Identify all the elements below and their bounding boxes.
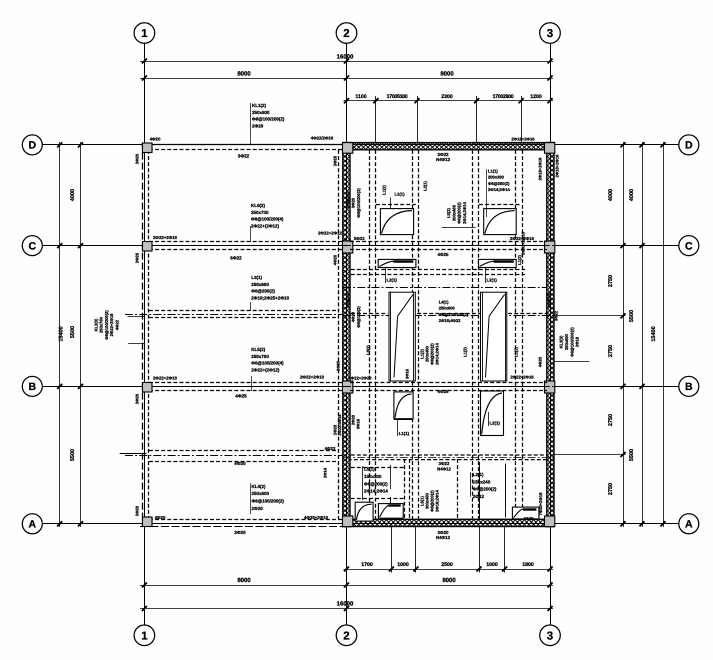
svg-text:8000: 8000 — [440, 70, 454, 77]
svg-text:8000: 8000 — [237, 577, 251, 584]
svg-text:2Φ18;2Φ25+2Φ18: 2Φ18;2Φ25+2Φ18 — [251, 295, 289, 300]
svg-text:180x300: 180x300 — [364, 474, 382, 479]
svg-text:L1(1): L1(1) — [399, 431, 410, 436]
svg-text:L1(1): L1(1) — [488, 169, 498, 174]
svg-text:3Φ20: 3Φ20 — [351, 197, 356, 208]
svg-text:8000: 8000 — [237, 70, 251, 77]
svg-text:2Φ22:3Φ16: 2Φ22:3Φ16 — [337, 414, 342, 436]
svg-text:2Φ22+(2Φ12): 2Φ22+(2Φ12) — [251, 223, 280, 228]
svg-text:Φ6@200(2): Φ6@200(2) — [473, 487, 497, 492]
svg-text:D: D — [685, 140, 693, 152]
svg-text:4Φ20: 4Φ20 — [155, 515, 166, 520]
svg-text:4Φ25: 4Φ25 — [235, 394, 247, 399]
svg-text:4Φ20: 4Φ20 — [234, 461, 246, 466]
svg-text:Φ8@100/200(2): Φ8@100/200(2) — [356, 188, 361, 218]
svg-text:250x600: 250x600 — [251, 282, 269, 287]
svg-text:2Φ14;2Φ14: 2Φ14;2Φ14 — [435, 342, 440, 364]
svg-text:2: 2 — [343, 28, 349, 40]
svg-text:2Φ22+2Φ18: 2Φ22+2Φ18 — [153, 376, 178, 381]
svg-text:KL4(2): KL4(2) — [252, 484, 267, 489]
svg-text:2750: 2750 — [608, 345, 614, 357]
svg-text:1000: 1000 — [486, 562, 498, 568]
svg-text:N4Φ12: N4Φ12 — [437, 466, 451, 471]
svg-text:4Φ20: 4Φ20 — [351, 311, 356, 322]
svg-text:3Φ16: 3Φ16 — [405, 368, 410, 379]
svg-text:L1(2): L1(2) — [513, 346, 518, 356]
svg-text:4Φ22/2Φ16: 4Φ22/2Φ16 — [311, 136, 334, 141]
svg-text:2Φ22+(2Φ12): 2Φ22+(2Φ12) — [251, 367, 280, 372]
svg-text:2: 2 — [343, 631, 349, 643]
svg-text:L2(1): L2(1) — [473, 472, 484, 477]
svg-text:3Φ20: 3Φ20 — [135, 505, 140, 516]
svg-text:2Φ14;2Φ14: 2Φ14;2Φ14 — [488, 187, 510, 192]
svg-text:8000: 8000 — [442, 577, 456, 584]
svg-text:KL1(2): KL1(2) — [252, 103, 267, 108]
svg-text:C: C — [685, 240, 693, 252]
svg-text:3: 3 — [547, 28, 553, 40]
svg-text:N4Φ12: N4Φ12 — [436, 157, 451, 162]
svg-text:15400: 15400 — [651, 326, 657, 341]
svg-text:2Φ14;2Φ14: 2Φ14;2Φ14 — [462, 201, 467, 223]
svg-text:L4(1): L4(1) — [439, 300, 449, 305]
svg-text:N4Φ12: N4Φ12 — [436, 535, 451, 540]
svg-text:2Φ18+2Φ16: 2Φ18+2Φ16 — [555, 154, 560, 177]
svg-text:4Φ20: 4Φ20 — [523, 516, 534, 521]
svg-text:4Φ22+2Φ20: 4Φ22+2Φ20 — [348, 376, 372, 381]
svg-text:A: A — [29, 519, 37, 531]
svg-text:B: B — [29, 381, 37, 393]
svg-text:Φ8@100/200(4): Φ8@100/200(4) — [251, 361, 284, 366]
svg-text:16000: 16000 — [337, 601, 354, 608]
svg-text:1800: 1800 — [522, 562, 534, 568]
svg-text:Φ6@200(2): Φ6@200(2) — [488, 181, 510, 186]
svg-text:2Φ18: 2Φ18 — [575, 336, 580, 347]
svg-text:2Φ16;2Φ14: 2Φ16;2Φ14 — [435, 489, 440, 511]
svg-text:L5(2): L5(2) — [446, 207, 451, 217]
svg-text:4Φ22: 4Φ22 — [325, 446, 336, 451]
svg-text:Φ8@100(2): Φ8@100(2) — [356, 306, 361, 328]
svg-text:4000: 4000 — [608, 189, 614, 201]
svg-text:KL3(3): KL3(3) — [559, 335, 564, 348]
svg-text:2Φ14;2Φ14: 2Φ14;2Φ14 — [364, 489, 388, 494]
svg-text:L1(2): L1(2) — [463, 346, 468, 356]
svg-text:L3(1): L3(1) — [251, 275, 262, 280]
svg-text:250x600: 250x600 — [252, 491, 270, 496]
svg-text:L1(2): L1(2) — [517, 254, 522, 264]
svg-text:4000: 4000 — [70, 189, 76, 201]
svg-text:2Φ20: 2Φ20 — [252, 506, 264, 511]
svg-text:3Φ22: 3Φ22 — [439, 461, 450, 466]
svg-text:5500: 5500 — [70, 449, 76, 461]
svg-text:4Φ22: 4Φ22 — [114, 319, 119, 330]
svg-text:4Φ20: 4Φ20 — [150, 137, 161, 142]
svg-text:3Φ20: 3Φ20 — [135, 393, 140, 404]
svg-text:3Φ22: 3Φ22 — [554, 310, 559, 321]
svg-text:Φ8@100/200(4): Φ8@100/200(4) — [251, 217, 284, 222]
svg-text:250x600: 250x600 — [439, 306, 456, 311]
svg-text:1: 1 — [141, 28, 148, 40]
svg-text:L2(1): L2(1) — [490, 421, 501, 426]
svg-text:7Φ20+2Φ18: 7Φ20+2Φ18 — [538, 492, 543, 515]
svg-text:2Φ18;4Φ22: 2Φ18;4Φ22 — [439, 318, 461, 323]
svg-text:Φ8@200: Φ8@200 — [345, 192, 350, 208]
svg-text:Φ8@100/200(2): Φ8@100/200(2) — [252, 117, 285, 122]
svg-text:L1(1): L1(1) — [395, 192, 406, 197]
svg-text:2Φ22+2Φ12: 2Φ22+2Φ12 — [318, 231, 343, 236]
svg-text:2Φ14: 2Φ14 — [323, 467, 328, 478]
svg-text:4Φ20+2Φ18: 4Φ20+2Φ18 — [304, 515, 329, 520]
svg-text:B: B — [685, 381, 693, 393]
svg-text:3Φ20: 3Φ20 — [234, 530, 246, 535]
svg-text:3: 3 — [547, 631, 553, 643]
svg-text:2Φ18+2Φ16: 2Φ18+2Φ16 — [511, 136, 535, 141]
svg-text:Φ8@100/200(2): Φ8@100/200(2) — [439, 312, 469, 317]
svg-text:2Φ12: 2Φ12 — [473, 494, 485, 499]
svg-text:17002900: 17002900 — [493, 94, 514, 100]
svg-text:3Φ20: 3Φ20 — [135, 252, 140, 263]
svg-text:3Φ16: 3Φ16 — [356, 418, 361, 429]
svg-text:5Φ22: 5Φ22 — [354, 236, 365, 241]
svg-text:250x700: 250x700 — [251, 354, 269, 359]
svg-text:1000: 1000 — [397, 562, 409, 568]
svg-text:L5(1): L5(1) — [364, 467, 375, 472]
svg-text:3Φ20: 3Φ20 — [438, 530, 449, 535]
svg-text:3Φ22: 3Φ22 — [438, 152, 449, 157]
svg-text:250x600: 250x600 — [252, 110, 270, 115]
svg-text:Φ6@200(2): Φ6@200(2) — [457, 202, 462, 224]
svg-text:2Φ20: 2Φ20 — [252, 123, 264, 128]
svg-text:6Φ22: 6Φ22 — [230, 256, 242, 261]
svg-text:2Φ22+2Φ18: 2Φ22+2Φ18 — [153, 235, 178, 240]
svg-text:2Φ20: 2Φ20 — [336, 360, 341, 371]
svg-text:2Φ02+2Φ16: 2Φ02+2Φ16 — [521, 231, 526, 254]
svg-text:4000: 4000 — [629, 189, 635, 201]
svg-text:2Φ22+2Φ18: 2Φ22+2Φ18 — [510, 375, 534, 380]
svg-text:4Φ20: 4Φ20 — [332, 254, 337, 265]
svg-text:Φ8@200(2): Φ8@200(2) — [251, 289, 275, 294]
svg-text:D: D — [29, 140, 37, 152]
svg-text:KL5(2): KL5(2) — [251, 347, 266, 352]
svg-text:Φ8@100/200(2): Φ8@100/200(2) — [252, 499, 285, 504]
svg-text:1100: 1100 — [355, 94, 366, 100]
svg-text:L8(2): L8(2) — [366, 344, 371, 354]
svg-text:5500: 5500 — [70, 326, 76, 338]
svg-text:2Φ18+2Φ16: 2Φ18+2Φ16 — [538, 157, 543, 180]
svg-text:L2(1): L2(1) — [423, 180, 428, 190]
svg-text:4Φ25: 4Φ25 — [438, 252, 449, 257]
svg-text:Φ6@200(2): Φ6@200(2) — [364, 481, 388, 486]
svg-text:A: A — [685, 519, 693, 531]
svg-text:2Φ22+2Φ18: 2Φ22+2Φ18 — [300, 375, 325, 380]
svg-text:Φ8@100/200(2): Φ8@100/200(2) — [569, 327, 574, 357]
svg-text:2750: 2750 — [608, 483, 614, 495]
svg-text:KL6(2): KL6(2) — [251, 203, 266, 208]
svg-text:5500: 5500 — [629, 449, 635, 461]
svg-text:250x700: 250x700 — [251, 210, 269, 215]
svg-text:Φ8@200: Φ8@200 — [345, 292, 350, 308]
svg-text:1700: 1700 — [361, 562, 373, 568]
svg-text:250x600: 250x600 — [564, 333, 569, 350]
svg-text:2Φ22+2Φ18: 2Φ22+2Φ18 — [510, 236, 535, 241]
svg-text:300x400: 300x400 — [451, 204, 456, 221]
svg-text:L2(1): L2(1) — [487, 278, 498, 283]
svg-text:2300: 2300 — [441, 94, 453, 100]
svg-text:2500: 2500 — [441, 562, 453, 568]
svg-text:200x300: 200x300 — [488, 175, 505, 180]
svg-text:C: C — [29, 240, 37, 252]
svg-text:16000: 16000 — [337, 53, 354, 60]
svg-text:5500: 5500 — [629, 310, 635, 322]
svg-text:3Φ22: 3Φ22 — [238, 154, 250, 159]
svg-text:L2(1): L2(1) — [387, 278, 398, 283]
svg-text:L1(2): L1(2) — [382, 184, 387, 194]
svg-text:1: 1 — [141, 631, 148, 643]
svg-text:3Φ20: 3Φ20 — [332, 155, 337, 166]
svg-text:2750: 2750 — [608, 275, 614, 287]
svg-text:2750: 2750 — [608, 414, 614, 426]
svg-text:4Φ20: 4Φ20 — [538, 356, 543, 367]
svg-text:150x240: 150x240 — [473, 479, 491, 484]
svg-text:17005100: 17005100 — [387, 94, 408, 100]
svg-text:15400: 15400 — [59, 326, 65, 341]
svg-text:4Φ25: 4Φ25 — [438, 389, 449, 394]
svg-text:3Φ20: 3Φ20 — [135, 153, 140, 164]
svg-text:1200: 1200 — [530, 94, 542, 100]
svg-text:Φ8@200: Φ8@200 — [547, 292, 552, 308]
